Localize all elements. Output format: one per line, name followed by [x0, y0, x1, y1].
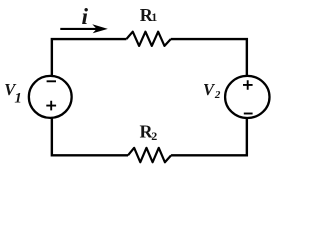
svg-text:2: 2 — [151, 129, 157, 143]
svg-text:1: 1 — [14, 91, 22, 107]
voltage source V1 — [29, 76, 72, 118]
resistor R1 — [126, 32, 170, 46]
current arrow shaft — [60, 28, 99, 30]
V1 minus sign — [47, 80, 56, 82]
svg-text:i: i — [82, 4, 89, 30]
wire bottom-left segment — [52, 118, 128, 155]
svg-text:1: 1 — [151, 10, 157, 24]
wire top-right segment — [171, 39, 247, 76]
svg-text:2: 2 — [214, 89, 221, 101]
current arrow head — [92, 24, 108, 33]
wire top-left segment — [52, 39, 127, 76]
voltage source V2 — [225, 76, 269, 118]
V2 plus sign — [243, 80, 253, 90]
resistor R2 — [128, 148, 171, 162]
wire right-bottom segment — [171, 118, 247, 155]
V2 minus sign — [244, 113, 253, 115]
V1 plus sign — [46, 101, 56, 111]
